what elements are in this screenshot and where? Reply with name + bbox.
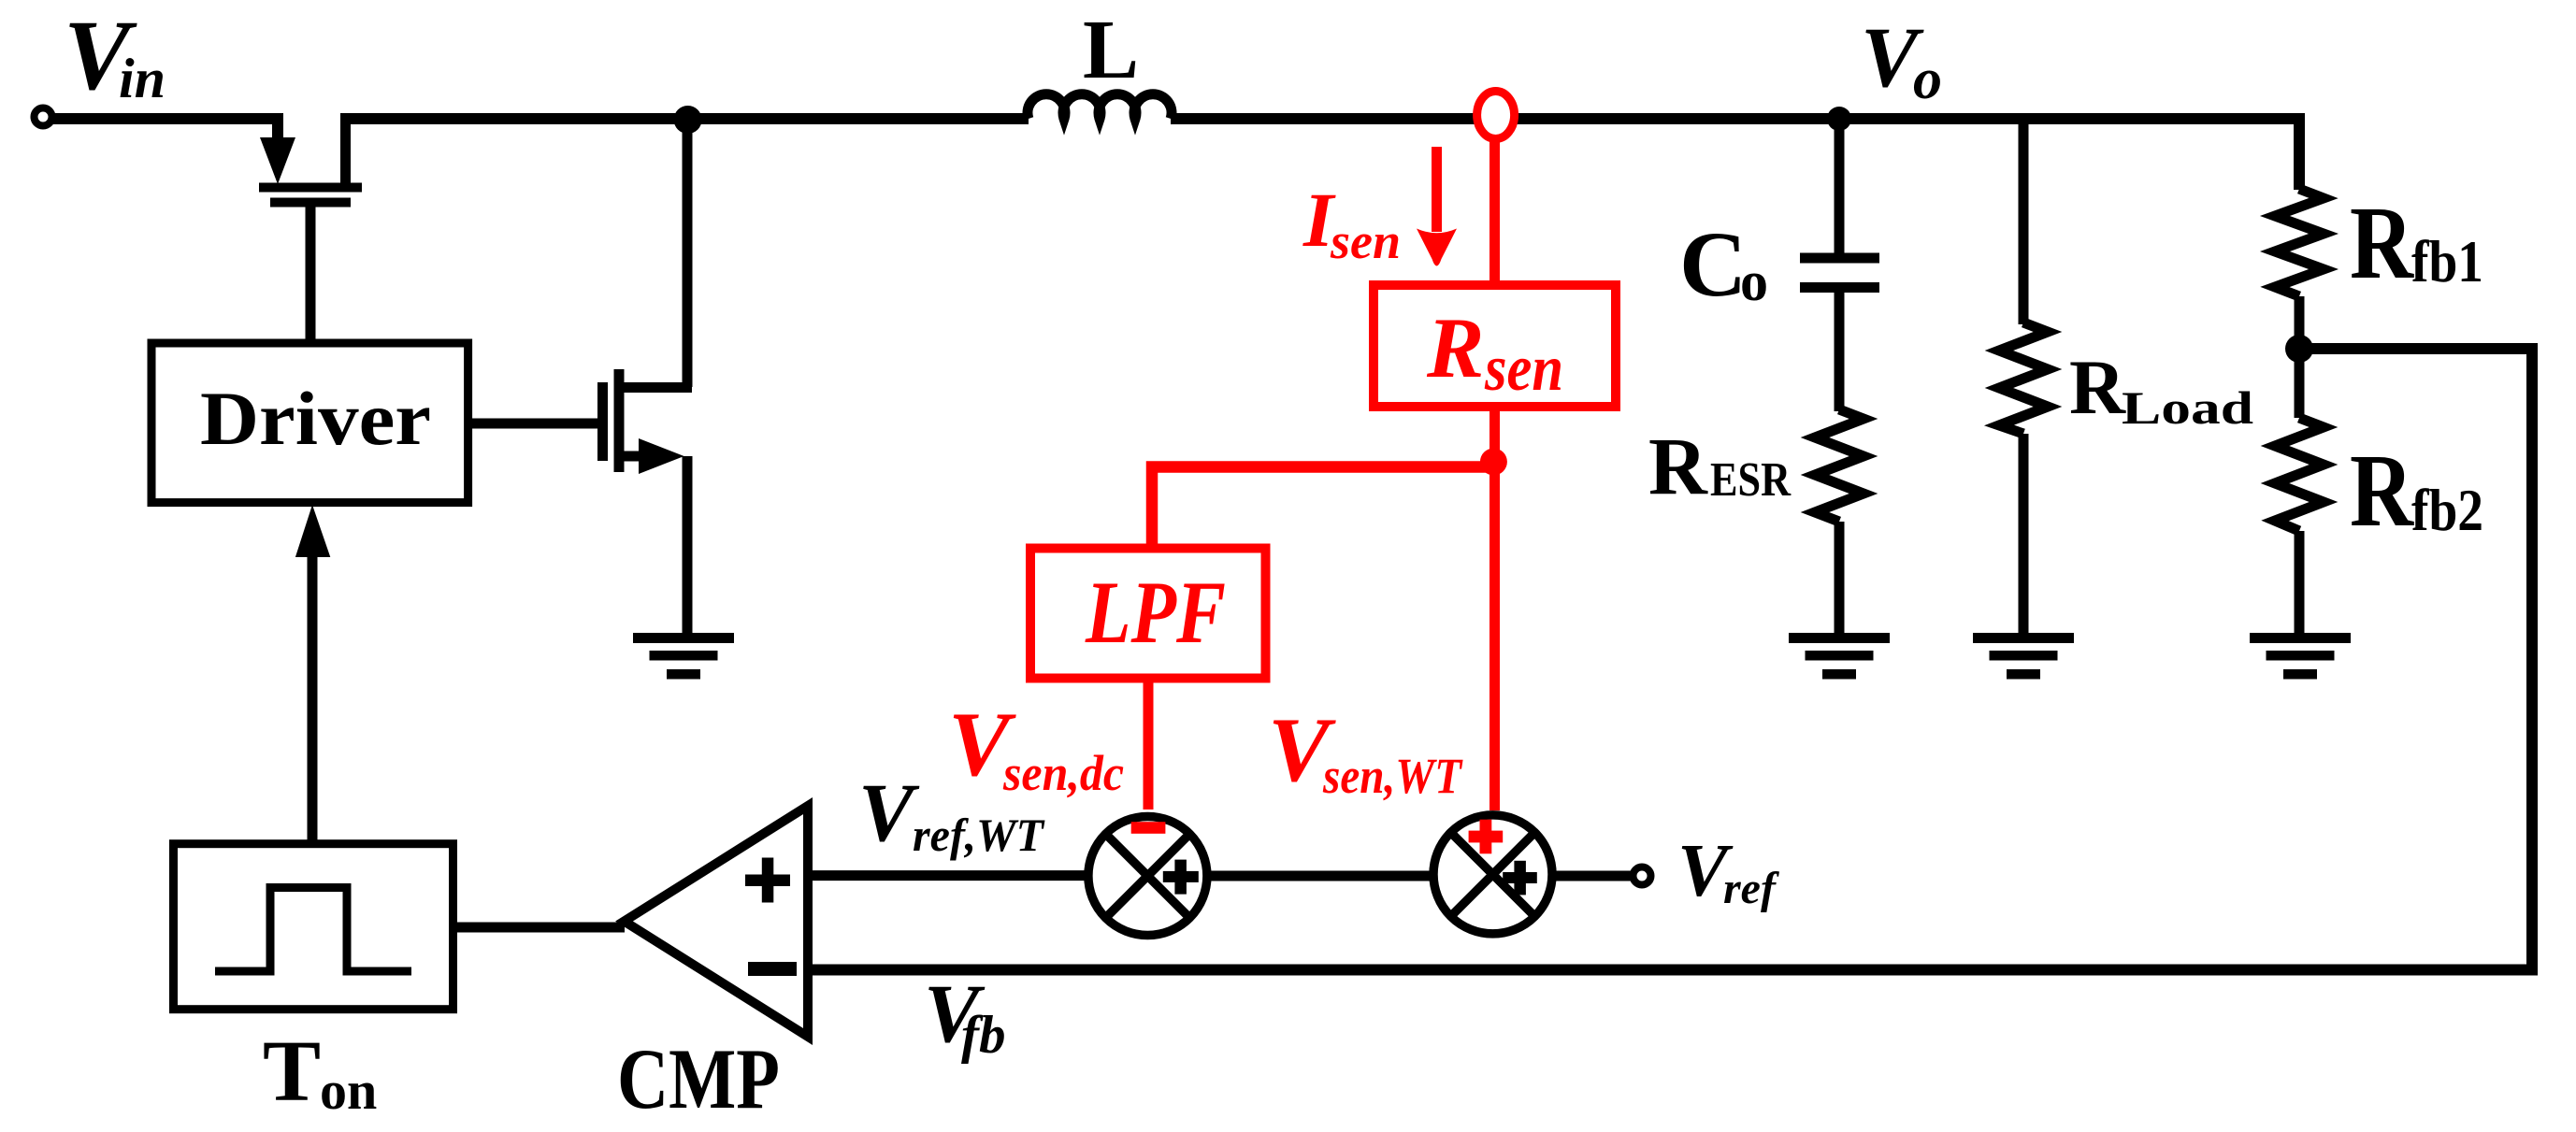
wire NMOS drain up to SW node <box>683 120 693 387</box>
svg-text:sen,WT: sen,WT <box>1322 748 1463 804</box>
svg-text:ref: ref <box>1723 864 1779 913</box>
transistor M2 NMOS source arrow <box>639 438 684 474</box>
wire Ton output to CMP <box>453 923 625 933</box>
wire Rsen to X2 <box>1489 407 1500 810</box>
block LPF box <box>1030 549 1266 679</box>
node Vo dot <box>1827 107 1851 131</box>
node Vin terminal <box>35 108 52 126</box>
multiplier X2 cross <box>1451 833 1535 917</box>
transistor M2 NMOS gate bar <box>597 382 608 461</box>
svg-text:sen,dc: sen,dc <box>1002 745 1124 801</box>
multiplier X1 plus sign <box>1163 860 1199 895</box>
svg-text:T: T <box>263 1024 321 1120</box>
ground Rfb2 <box>2250 633 2351 680</box>
wire Driver output to NMOS gate <box>468 419 598 429</box>
svg-text:sen: sen <box>1330 213 1401 269</box>
ground NMOS source <box>633 633 734 680</box>
wire red junction to LPF <box>1152 467 1493 550</box>
wire Co to RESR <box>1835 293 1845 411</box>
wire RESR to ground <box>1835 522 1845 633</box>
resistor RESR zigzag <box>1815 409 1864 522</box>
wire Ton to Driver arrow <box>308 553 318 843</box>
block Ton box <box>174 844 453 1010</box>
wire Vo rail down to RLoad <box>2019 119 2029 324</box>
wire feedback Vfb loop <box>808 349 2532 970</box>
wire X1 to X2 <box>1209 871 1432 881</box>
svg-text:Load: Load <box>2122 381 2253 434</box>
svg-text:C: C <box>1679 212 1747 316</box>
multiplier X2 circle <box>1433 815 1552 934</box>
CMP minus sign <box>748 962 797 976</box>
transistor M1 PMOS channel bar <box>259 183 362 193</box>
wire NMOS drain lead <box>624 382 692 393</box>
svg-text:L: L <box>1083 4 1139 96</box>
wire Rfb2 to ground <box>2295 531 2305 633</box>
resistor RLoad zigzag <box>1999 322 2048 434</box>
X1 red minus sign <box>1131 822 1166 834</box>
resistor Rfb2 zigzag <box>2275 418 2324 531</box>
wire Vin to PMOS source <box>52 113 278 140</box>
svg-text:o: o <box>1913 48 1942 111</box>
svg-text:in: in <box>119 48 165 109</box>
wire NMOS source lead <box>624 451 642 462</box>
node red junction dot <box>1480 449 1507 476</box>
svg-text:R: R <box>2350 434 2415 549</box>
wire rail inductor to sensor <box>1171 113 1479 124</box>
svg-text:R: R <box>1648 421 1708 511</box>
svg-text:R: R <box>2069 344 2126 430</box>
CMP plus sign <box>745 858 790 903</box>
svg-text:sen: sen <box>1484 333 1563 405</box>
transistor M1 PMOS gate bar <box>270 198 351 208</box>
wire RLoad to ground <box>2019 434 2029 633</box>
svg-text:V: V <box>858 767 920 859</box>
wire PMOS drain up to rail <box>340 119 351 183</box>
wire PMOS gate to Driver <box>306 207 316 343</box>
multiplier X1 circle <box>1088 817 1207 936</box>
multiplier X1 cross <box>1106 834 1190 918</box>
X2 red plus sign <box>1469 820 1504 854</box>
wire sensor to Rsen <box>1489 138 1500 285</box>
svg-text:ESR: ESR <box>1710 453 1792 507</box>
svg-text:o: o <box>1740 251 1768 312</box>
wire CMP plus input <box>808 870 1087 881</box>
resistor Rfb1 zigzag <box>2275 189 2324 296</box>
wire rail sensor to Rfb corner <box>1516 119 2299 190</box>
Isen arrowhead <box>1417 229 1457 266</box>
node feedback junction dot <box>2285 335 2313 363</box>
svg-text:fb1: fb1 <box>2411 228 2483 294</box>
resistor Rsen box <box>1374 285 1616 407</box>
arrowhead Ton to Driver <box>295 505 330 557</box>
svg-text:CMP: CMP <box>617 1031 780 1126</box>
Ton pulse symbol <box>215 888 411 972</box>
svg-text:fb2: fb2 <box>2411 477 2483 543</box>
inductor L <box>1028 94 1172 119</box>
svg-text:R: R <box>2350 186 2415 301</box>
Isen arrow line <box>1432 147 1442 232</box>
transistor M2 NMOS channel bar <box>614 369 625 472</box>
node Vref terminal <box>1633 867 1651 885</box>
wire LPF to X1 <box>1144 678 1154 810</box>
svg-text:Driver: Driver <box>200 376 431 461</box>
wire Rfb1 to Rfb2 <box>2295 296 2305 418</box>
svg-text:ref,WT: ref,WT <box>913 809 1045 861</box>
transistor M1 PMOS source arrow <box>260 137 295 184</box>
ground RESR <box>1789 633 1890 680</box>
op-amp CMP triangle <box>625 806 809 1037</box>
svg-text:on: on <box>320 1060 377 1121</box>
multiplier X2 plus sign <box>1503 861 1537 896</box>
ground RLoad <box>1973 633 2074 680</box>
current sensor probe circle <box>1477 92 1515 139</box>
wire NMOS source to ground <box>683 456 693 633</box>
svg-text:fb: fb <box>961 1006 1005 1065</box>
capacitor Co plates <box>1800 253 1879 294</box>
wire X2 to Vref terminal <box>1554 871 1633 881</box>
block Driver box <box>151 343 468 503</box>
wire top rail left <box>340 113 1029 124</box>
node SW junction dot <box>674 106 702 134</box>
wire Vo down to Co <box>1835 119 1845 253</box>
svg-text:R: R <box>1426 300 1484 395</box>
svg-text:LPF: LPF <box>1085 563 1226 662</box>
